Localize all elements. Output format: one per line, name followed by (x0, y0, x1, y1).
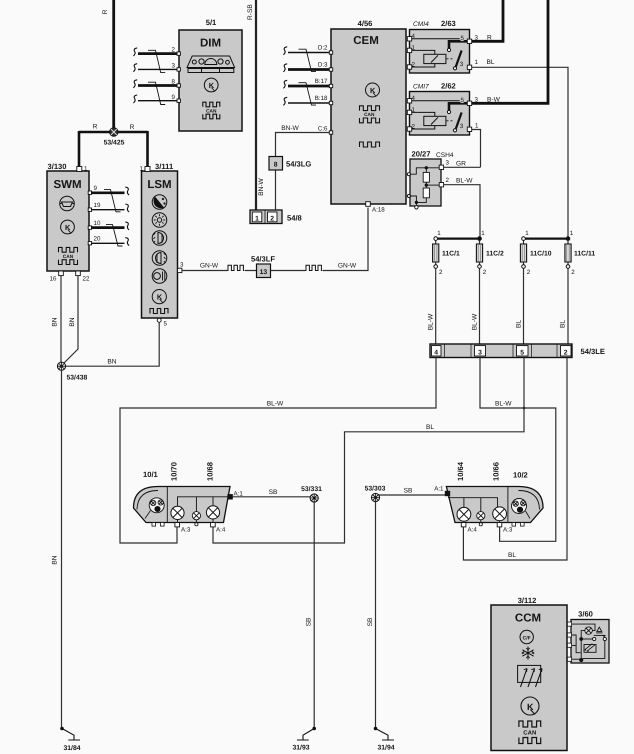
svg-text:A:4: A:4 (216, 527, 226, 534)
relay 2/62 CMI7 (410, 82, 470, 136)
svg-text:2: 2 (564, 349, 568, 356)
bulb connector 11C/1 (433, 230, 460, 276)
climate control module CCM 3/112 (491, 596, 567, 751)
LSM pin 3 right (178, 262, 185, 273)
svg-text:2: 2 (446, 177, 450, 184)
bulb connector 11C/10 (520, 230, 551, 276)
svg-text:A:3: A:3 (503, 527, 513, 534)
svg-text:SWM: SWM (53, 179, 81, 191)
svg-text:1: 1 (84, 166, 88, 173)
svg-text:BL: BL (426, 424, 434, 431)
suppressor wave on wire left (227, 265, 244, 270)
svg-text:B:17: B:17 (315, 78, 328, 85)
rail wire joining 11C/10 and 11C/11 pin 1 (525, 238, 568, 240)
svg-text:SB: SB (404, 488, 413, 495)
svg-text:3/130: 3/130 (48, 162, 67, 171)
svg-text:GR: GR (456, 161, 466, 168)
wire BL-W 11C/1 pin 2 down to 54/3LE pin 4 (435, 268, 437, 344)
wire SB from left lamp A:1 to splice 53/331 (232, 496, 314, 498)
CCM K-diagnostic icon (521, 697, 539, 715)
svg-text:GN-W: GN-W (200, 263, 219, 270)
central electronic module CEM 4/56 (331, 19, 406, 204)
svg-text:31/94: 31/94 (378, 745, 395, 752)
svg-text:3: 3 (460, 123, 464, 130)
svg-text:3: 3 (180, 262, 184, 269)
svg-text:A:4: A:4 (468, 527, 478, 534)
3/60 pins to CCM (567, 622, 571, 661)
svg-text:3: 3 (475, 35, 479, 42)
LSM wave symbol (150, 309, 168, 314)
svg-text:2: 2 (571, 269, 575, 276)
control module DIM 5/1 (179, 18, 242, 131)
svg-text:1: 1 (255, 216, 259, 223)
svg-text:A:18: A:18 (372, 207, 385, 214)
svg-text:3/111: 3/111 (155, 162, 174, 171)
svg-text:CEM: CEM (353, 35, 379, 47)
CEM CAN symbol (360, 106, 380, 123)
wire BL 11C/11 pin 2 down to 54/3LE pin 2 (567, 268, 569, 344)
junction dot at 11C/11 pin 1 (566, 237, 569, 240)
svg-text:10: 10 (94, 220, 101, 227)
LSM headlamp icon (152, 213, 167, 228)
DIM twisted-pair stub wires (133, 48, 177, 105)
svg-text:BL-W: BL-W (456, 178, 473, 185)
svg-text:CAN: CAN (206, 108, 217, 114)
wire BL-W 11C/2 pin 2 down to 54/3LE pin 3 (479, 268, 481, 344)
svg-text:CAN: CAN (523, 729, 536, 736)
right lamp pin A:1 (434, 486, 450, 496)
wire BL from 54/3LE pin 2 to right lamp A:4 (463, 358, 567, 561)
svg-text:2: 2 (527, 269, 531, 276)
svg-text:C/F: C/F (523, 635, 531, 641)
svg-text:10/66: 10/66 (492, 462, 501, 481)
right lamp multi-bulb icon (512, 499, 531, 519)
svg-text:BN-W: BN-W (258, 177, 265, 195)
svg-text:1: 1 (570, 230, 574, 237)
svg-text:CCM: CCM (515, 613, 541, 625)
splice node 53/425 (104, 128, 125, 147)
wire GR from 20/27 pin 3 (444, 166, 481, 168)
wire BN from LSM pin 5 to splice 53/438 (66, 322, 160, 366)
CEM left pins D:2 D:3 B:17 B:18 C:6 (315, 45, 333, 135)
rail wire joining 11C/1 and 11C/2 pin 1 (438, 238, 481, 240)
svg-text:1: 1 (525, 230, 529, 237)
svg-text:31/84: 31/84 (64, 745, 81, 752)
svg-text:31/93: 31/93 (293, 745, 310, 752)
wire R horizontal splice bar to SWM and LSM (79, 131, 148, 171)
svg-text:10/2: 10/2 (513, 471, 528, 480)
svg-text:13: 13 (260, 269, 268, 276)
wire R vertical from top to splice 53/425 (112, 0, 115, 132)
svg-text:19: 19 (94, 202, 101, 209)
svg-text:R: R (93, 124, 98, 131)
svg-text:53/331: 53/331 (301, 486, 322, 493)
svg-text:3/60: 3/60 (578, 610, 593, 619)
svg-text:SB: SB (269, 489, 278, 496)
svg-text:3: 3 (475, 97, 479, 104)
right lamp pins A:4 A:3 and stubs (461, 520, 524, 534)
connector 8 54/3LG (269, 157, 311, 171)
SWM K-diagnostic icon (61, 220, 75, 234)
CCM heater icon (518, 665, 542, 687)
rear lamp assembly right 10/2 (446, 461, 543, 522)
svg-text:CAN: CAN (364, 112, 375, 118)
switch unit 3/60 (571, 610, 609, 664)
svg-text:B:18: B:18 (315, 95, 328, 102)
svg-text:11C/2: 11C/2 (486, 251, 504, 258)
svg-text:SB: SB (367, 617, 374, 626)
wire BL-W from 54/3LE pin 4 to left lamp A:3 (120, 358, 436, 544)
DIM pins 2,3,8,9 with squares (172, 47, 181, 103)
svg-text:16: 16 (50, 276, 57, 283)
svg-text:R-SB: R-SB (247, 4, 254, 20)
svg-text:CMI7: CMI7 (413, 84, 429, 91)
wire GN-W from LSM pin 3 to CEM pin A:18 (182, 208, 368, 271)
svg-text:2: 2 (439, 269, 443, 276)
svg-text:4: 4 (434, 349, 438, 356)
left lamp bulb 10/68 (206, 506, 219, 519)
svg-text:54/3LF: 54/3LF (251, 255, 275, 264)
svg-text:LSM: LSM (147, 179, 171, 191)
svg-text:1: 1 (437, 230, 441, 237)
CCM temperature icon (520, 630, 533, 643)
left lamp pin A:1 (228, 491, 244, 500)
splice node 53/303 (365, 486, 386, 502)
svg-text:10/68: 10/68 (206, 462, 215, 481)
LSM K-diagnostic icon (152, 290, 166, 304)
svg-text:2/63: 2/63 (441, 19, 456, 28)
SWM twisted-pair stub wires (91, 187, 129, 246)
SWM bottom pins 16 and 22 (50, 271, 90, 283)
svg-text:B-W: B-W (487, 97, 501, 104)
svg-text:5: 5 (520, 349, 524, 356)
bulb connector 11C/2 (476, 230, 504, 276)
ground 31/93 (293, 727, 317, 752)
svg-text:3: 3 (460, 61, 464, 68)
CEM wave symbol (360, 142, 380, 147)
relay 2/62 internals (407, 95, 471, 132)
junction dot at 11C/2 pin 1 (478, 237, 481, 240)
left lamp bulb 10/70 (171, 506, 184, 519)
svg-text:D:2: D:2 (318, 45, 328, 52)
svg-text:R: R (130, 124, 135, 131)
wire BN from SWM pin 22 angling into splice (64, 276, 79, 364)
svg-text:K: K (157, 292, 163, 301)
svg-text:2: 2 (270, 216, 274, 223)
CEM twisted-pair stub wires (283, 47, 329, 106)
SWM right side pins 9,19,10,20 (88, 185, 101, 245)
bulb connector 11C/11 (565, 230, 595, 276)
SWM steering-wheel icon (60, 196, 75, 211)
svg-text:20/27: 20/27 (412, 150, 431, 159)
wire R thick from relay 2/63 pin 5 up to top (472, 0, 503, 41)
svg-text:BL-W: BL-W (428, 313, 435, 330)
svg-text:9: 9 (94, 185, 98, 192)
wire BN from SWM pin 16 down to splice 53/438 (60, 276, 62, 362)
svg-text:53/303: 53/303 (365, 486, 386, 493)
right lamp bulb 10/66 (493, 507, 507, 521)
svg-text:22: 22 (83, 276, 90, 283)
svg-text:CMI4: CMI4 (413, 21, 429, 28)
wire R-SB vertical from top to connector 54/8 pin 1 (255, 0, 257, 210)
svg-text:5/1: 5/1 (206, 18, 217, 27)
wire BL from 54/3LE pin 5 to left lamp A:4 (213, 358, 524, 544)
connector 54/8 (250, 210, 302, 224)
suppressor wave on wire right (305, 265, 322, 270)
light switch module LSM 3/111 (140, 162, 178, 318)
LSM pin 5 bottom (157, 318, 167, 327)
svg-text:K: K (209, 81, 215, 90)
svg-text:1: 1 (475, 123, 479, 130)
svg-text:A:3: A:3 (181, 527, 191, 534)
svg-text:BN: BN (69, 317, 76, 326)
svg-text:10/64: 10/64 (456, 461, 465, 481)
svg-text:54/3LE: 54/3LE (581, 347, 605, 356)
svg-text:1: 1 (481, 230, 485, 237)
svg-text:3: 3 (172, 63, 176, 70)
svg-text:GN-W: GN-W (338, 263, 357, 270)
resistor pack 20/27 CSH4 (410, 150, 454, 207)
small crossover dot (523, 407, 526, 410)
relay 2/63 CMI4 (410, 19, 470, 73)
svg-text:D:3: D:3 (318, 62, 328, 69)
20/27 internals: two series resistors (407, 165, 443, 209)
svg-text:3/112: 3/112 (518, 596, 537, 605)
svg-text:BL: BL (508, 552, 516, 559)
LSM front fog lamp icon (152, 231, 167, 246)
svg-text:BL-W: BL-W (472, 313, 479, 330)
svg-text:10/1: 10/1 (143, 470, 159, 479)
svg-text:BN-W: BN-W (281, 125, 299, 132)
svg-text:1: 1 (475, 59, 479, 66)
wire BN from splice down to ground 31/84 (61, 370, 63, 727)
wire SB from splice 53/331 down to ground 31/93 (313, 502, 315, 727)
svg-text:A:1: A:1 (434, 486, 444, 493)
svg-text:SB: SB (306, 617, 313, 626)
CCM snowflake icon (522, 647, 534, 660)
svg-text:R: R (487, 35, 492, 42)
wire BN-W from CEM pin C:6 to connector 54/3LG (276, 133, 332, 211)
svg-text:54/8: 54/8 (287, 214, 302, 223)
right lamp small bulb (477, 512, 485, 520)
svg-text:11C/1: 11C/1 (442, 251, 460, 258)
right lamp internal feed rail from A:1 (448, 498, 498, 512)
wire B-W thick from relay 2/62 pin 5 up to top (472, 0, 548, 103)
right lamp bulb 10/64 (457, 507, 471, 521)
wire BL-W from 20/27 pin 2 to rail (444, 185, 480, 239)
DIM gauge-cluster icon (187, 56, 235, 73)
wire BL from relay 2/63 pin 3 to lamp rail (472, 67, 568, 238)
DIM CAN symbol (203, 102, 220, 119)
svg-text:BL: BL (516, 320, 523, 328)
svg-text:11C/11: 11C/11 (574, 251, 595, 258)
connector strip 54/3LE (430, 344, 605, 358)
SWM CAN symbol (59, 247, 78, 264)
LSM light-switch knob icon (152, 195, 167, 210)
CEM K-diagnostic icon (366, 83, 380, 97)
svg-text:CSH4: CSH4 (436, 152, 454, 159)
rear lamp assembly left 10/1 (134, 462, 231, 523)
DIM K-diagnostic icon (204, 78, 218, 92)
ground 31/94 (374, 727, 395, 752)
wire BL-W from 54/3LE pin 3 to right lamp A:3 (480, 358, 556, 542)
splice node 53/438 (57, 362, 87, 381)
svg-text:1: 1 (140, 166, 144, 173)
svg-text:8: 8 (274, 161, 278, 168)
wire BL 11C/10 pin 2 down to 54/3LE pin 5 (523, 268, 525, 344)
svg-text:K: K (370, 86, 376, 95)
splice node 53/331 (301, 486, 322, 502)
svg-text:4/56: 4/56 (358, 19, 373, 28)
svg-text:R: R (102, 9, 109, 14)
svg-text:5: 5 (461, 97, 465, 104)
svg-text:9: 9 (172, 94, 176, 101)
connector 13 54/3LF (251, 255, 275, 278)
LSM rear fog lamp icon (152, 251, 167, 266)
relay 2/63 internals (407, 33, 471, 70)
3/60 internals: illumination bulb, warning lamp, dimmer (572, 624, 607, 662)
svg-text:5: 5 (164, 321, 168, 328)
steering wheel module SWM 3/130 (47, 162, 89, 271)
svg-text:BN: BN (52, 555, 59, 564)
svg-text:3: 3 (446, 160, 450, 167)
svg-text:C:6: C:6 (318, 126, 328, 133)
CCM CAN symbol (519, 721, 541, 744)
svg-text:BN: BN (107, 359, 116, 366)
svg-text:3: 3 (478, 349, 482, 356)
svg-text:5: 5 (461, 35, 465, 42)
svg-text:53/425: 53/425 (104, 140, 125, 147)
wire SB from splice 53/303 down to ground 31/94 (375, 502, 377, 727)
svg-text:2: 2 (483, 269, 487, 276)
svg-text:BL-W: BL-W (495, 401, 512, 408)
svg-text:20: 20 (94, 236, 101, 243)
wire from relay 2/62 pin 3 down to resistor pack (472, 130, 481, 168)
svg-text:2/62: 2/62 (441, 82, 456, 91)
svg-text:54/3LG: 54/3LG (286, 160, 311, 169)
LSM instrument illumination icon (152, 269, 167, 284)
wire SB from splice 53/303 to right lamp A:1 (377, 494, 445, 496)
svg-text:BL-W: BL-W (267, 401, 284, 408)
svg-text:11C/10: 11C/10 (530, 251, 552, 258)
svg-text:53/438: 53/438 (67, 375, 88, 382)
svg-text:10/70: 10/70 (170, 462, 179, 481)
ground 31/84 (60, 727, 81, 752)
left lamp pins A:3 A:4 and stubs (152, 519, 226, 534)
svg-text:BL: BL (487, 59, 495, 66)
svg-text:DIM: DIM (200, 38, 221, 50)
left lamp small bulb (192, 512, 200, 520)
svg-text:BN: BN (52, 317, 59, 326)
left lamp internal feed rail from A:1 (178, 497, 231, 512)
CEM pin A:18 bottom (366, 202, 386, 214)
left lamp multi-bulb icon (145, 498, 164, 519)
svg-text:BL: BL (560, 320, 567, 328)
